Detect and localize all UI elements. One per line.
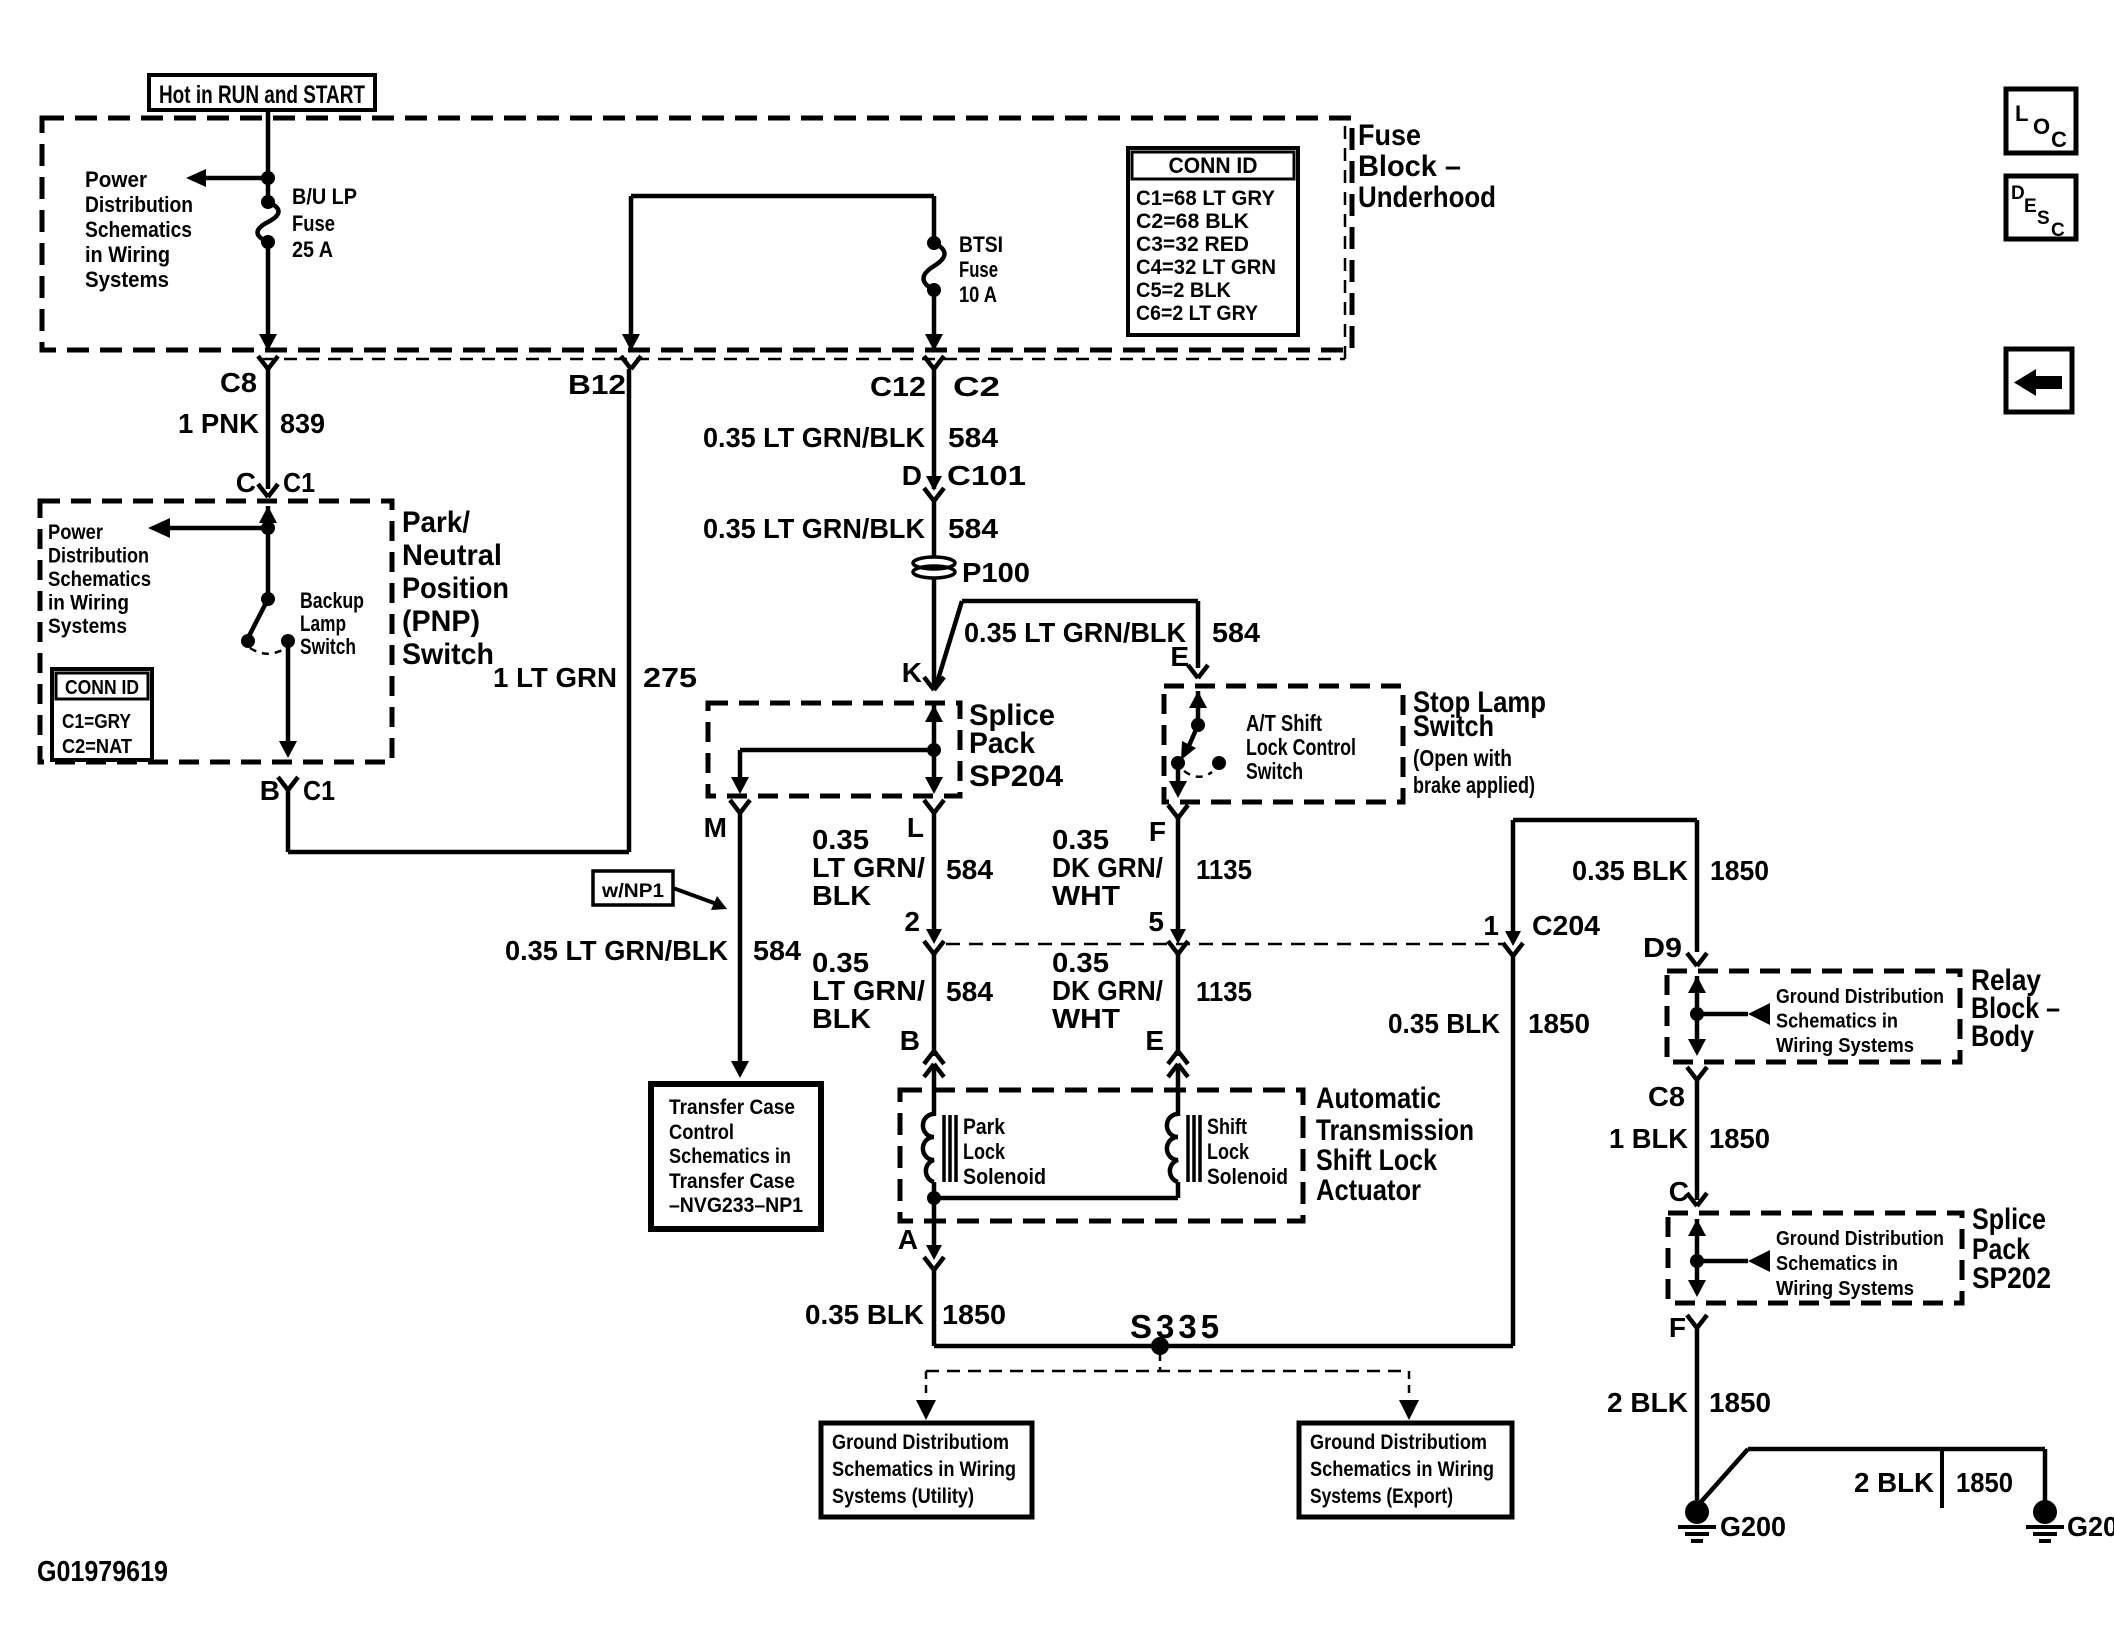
svg-text:C: C bbox=[2051, 127, 2067, 152]
svg-text:0.35 BLK: 0.35 BLK bbox=[1388, 1008, 1500, 1039]
svg-text:1850: 1850 bbox=[1709, 1123, 1770, 1154]
svg-text:Underhood: Underhood bbox=[1358, 181, 1496, 214]
svg-text:Ground Distribution: Ground Distribution bbox=[1776, 986, 1944, 1008]
svg-text:C8: C8 bbox=[1648, 1081, 1685, 1112]
svg-text:Splice: Splice bbox=[1972, 1203, 2046, 1236]
svg-text:1 LT GRN: 1 LT GRN bbox=[493, 662, 617, 693]
svg-text:L: L bbox=[907, 812, 924, 843]
svg-text:C1=GRY: C1=GRY bbox=[62, 711, 132, 733]
svg-text:C1: C1 bbox=[303, 775, 335, 806]
svg-text:Systems (Export): Systems (Export) bbox=[1310, 1485, 1453, 1508]
svg-text:Lamp: Lamp bbox=[300, 611, 346, 636]
svg-text:CONN ID: CONN ID bbox=[65, 677, 139, 699]
svg-text:SP204: SP204 bbox=[969, 760, 1063, 793]
svg-text:Fuse: Fuse bbox=[959, 257, 998, 282]
svg-text:D: D bbox=[2011, 183, 2025, 204]
svg-text:LT GRN/: LT GRN/ bbox=[812, 852, 925, 883]
svg-text:G01979619: G01979619 bbox=[37, 1556, 168, 1588]
svg-text:F: F bbox=[1149, 816, 1166, 847]
svg-text:Fuse: Fuse bbox=[1358, 119, 1421, 152]
svg-text:C1=68 LT GRY: C1=68 LT GRY bbox=[1136, 187, 1275, 210]
svg-text:Switch: Switch bbox=[1246, 758, 1303, 784]
svg-text:1850: 1850 bbox=[1709, 1387, 1771, 1418]
svg-text:Switch: Switch bbox=[300, 634, 356, 659]
svg-text:F: F bbox=[1669, 1312, 1686, 1343]
svg-text:CONN ID: CONN ID bbox=[1169, 153, 1258, 178]
svg-text:Automatic: Automatic bbox=[1316, 1082, 1441, 1115]
svg-text:1850: 1850 bbox=[1956, 1467, 2013, 1498]
svg-text:C8: C8 bbox=[220, 367, 257, 398]
svg-text:Power: Power bbox=[48, 521, 103, 544]
svg-text:E: E bbox=[2024, 196, 2037, 217]
svg-text:2 BLK: 2 BLK bbox=[1854, 1467, 1934, 1498]
svg-text:E: E bbox=[1145, 1025, 1164, 1056]
svg-text:Transfer Case: Transfer Case bbox=[669, 1170, 795, 1193]
svg-text:S: S bbox=[2037, 208, 2050, 229]
svg-text:Ground Distributiom: Ground Distributiom bbox=[832, 1431, 1009, 1454]
svg-text:Schematics: Schematics bbox=[48, 568, 151, 591]
svg-text:C3=32 RED: C3=32 RED bbox=[1136, 233, 1249, 256]
svg-text:Shift: Shift bbox=[1207, 1114, 1248, 1139]
svg-text:0.35: 0.35 bbox=[1052, 824, 1109, 855]
svg-text:1135: 1135 bbox=[1196, 854, 1252, 885]
svg-text:B: B bbox=[900, 1025, 920, 1056]
svg-text:in Wiring: in Wiring bbox=[48, 592, 129, 615]
svg-text:BLK: BLK bbox=[812, 880, 871, 911]
svg-text:C4=32 LT GRN: C4=32 LT GRN bbox=[1136, 256, 1276, 279]
svg-text:839: 839 bbox=[280, 408, 325, 439]
svg-text:BLK: BLK bbox=[812, 1003, 871, 1034]
svg-text:1135: 1135 bbox=[1196, 976, 1252, 1007]
svg-text:Actuator: Actuator bbox=[1316, 1174, 1421, 1207]
svg-text:Wiring Systems: Wiring Systems bbox=[1776, 1035, 1914, 1057]
svg-text:C2: C2 bbox=[953, 371, 1000, 402]
svg-text:0.35 LT GRN/BLK: 0.35 LT GRN/BLK bbox=[703, 422, 925, 453]
svg-text:C12: C12 bbox=[870, 371, 926, 402]
svg-text:584: 584 bbox=[1212, 617, 1260, 648]
svg-text:0.35 LT GRN/BLK: 0.35 LT GRN/BLK bbox=[703, 513, 925, 544]
svg-text:Solenoid: Solenoid bbox=[963, 1164, 1046, 1189]
svg-text:Schematics in: Schematics in bbox=[1776, 1253, 1898, 1275]
svg-text:Neutral: Neutral bbox=[402, 539, 502, 572]
svg-text:Block –: Block – bbox=[1358, 150, 1461, 183]
svg-text:WHT: WHT bbox=[1052, 880, 1120, 911]
svg-text:(PNP): (PNP) bbox=[402, 605, 480, 638]
svg-text:Backup: Backup bbox=[300, 588, 364, 613]
svg-text:C1: C1 bbox=[283, 467, 315, 498]
svg-text:B/U LP: B/U LP bbox=[292, 184, 357, 209]
svg-text:1850: 1850 bbox=[1710, 855, 1769, 886]
svg-text:Park/: Park/ bbox=[402, 506, 471, 539]
svg-text:A: A bbox=[898, 1224, 918, 1255]
svg-text:Park: Park bbox=[963, 1114, 1006, 1139]
svg-text:LT GRN/: LT GRN/ bbox=[812, 975, 925, 1006]
svg-text:Body: Body bbox=[1971, 1020, 2034, 1053]
svg-text:D9: D9 bbox=[1643, 932, 1682, 963]
svg-text:C: C bbox=[2051, 220, 2065, 241]
svg-text:0.35: 0.35 bbox=[812, 824, 869, 855]
svg-text:Schematics in Wiring: Schematics in Wiring bbox=[1310, 1458, 1494, 1481]
svg-text:Position: Position bbox=[402, 572, 509, 605]
svg-text:O: O bbox=[2033, 114, 2050, 139]
svg-text:Schematics in Wiring: Schematics in Wiring bbox=[832, 1458, 1016, 1481]
svg-text:E: E bbox=[1170, 641, 1189, 672]
svg-text:0.35 LT GRN/BLK: 0.35 LT GRN/BLK bbox=[964, 617, 1186, 648]
svg-text:1: 1 bbox=[1483, 910, 1499, 941]
svg-text:Switch: Switch bbox=[402, 638, 494, 671]
svg-text:Systems (Utility): Systems (Utility) bbox=[832, 1485, 974, 1508]
svg-text:G201: G201 bbox=[2067, 1511, 2114, 1542]
svg-text:1 PNK: 1 PNK bbox=[178, 408, 259, 439]
svg-text:C: C bbox=[236, 467, 256, 498]
svg-text:C101: C101 bbox=[947, 460, 1026, 491]
svg-text:DK GRN/: DK GRN/ bbox=[1052, 975, 1163, 1006]
svg-text:B: B bbox=[260, 775, 280, 806]
svg-text:0.35: 0.35 bbox=[812, 947, 869, 978]
svg-text:BTSI: BTSI bbox=[959, 232, 1003, 257]
svg-text:SP202: SP202 bbox=[1972, 1262, 2051, 1295]
svg-text:Lock: Lock bbox=[963, 1139, 1006, 1164]
svg-text:1850: 1850 bbox=[1528, 1008, 1590, 1039]
svg-text:WHT: WHT bbox=[1052, 1003, 1120, 1034]
svg-text:Ground Distributiom: Ground Distributiom bbox=[1310, 1431, 1487, 1454]
svg-text:C: C bbox=[1669, 1176, 1689, 1207]
svg-text:10 A: 10 A bbox=[959, 282, 997, 307]
svg-text:0.35 BLK: 0.35 BLK bbox=[805, 1299, 924, 1330]
svg-text:C6=2 LT GRY: C6=2 LT GRY bbox=[1136, 302, 1258, 325]
svg-text:Ground Distribution: Ground Distribution bbox=[1776, 1228, 1944, 1250]
svg-text:Wiring Systems: Wiring Systems bbox=[1776, 1278, 1914, 1300]
svg-text:Fuse: Fuse bbox=[292, 211, 335, 236]
svg-text:C2=NAT: C2=NAT bbox=[62, 736, 132, 758]
svg-text:C2=68 BLK: C2=68 BLK bbox=[1136, 210, 1249, 233]
svg-text:275: 275 bbox=[643, 662, 697, 693]
svg-text:0.35: 0.35 bbox=[1052, 947, 1109, 978]
svg-text:Distribution: Distribution bbox=[85, 192, 193, 217]
svg-text:584: 584 bbox=[948, 422, 998, 453]
svg-text:Schematics in: Schematics in bbox=[669, 1145, 791, 1168]
svg-text:1850: 1850 bbox=[942, 1299, 1006, 1330]
svg-text:2 BLK: 2 BLK bbox=[1607, 1387, 1688, 1418]
svg-text:–NVG233–NP1: –NVG233–NP1 bbox=[669, 1194, 803, 1217]
svg-text:2: 2 bbox=[904, 906, 920, 937]
svg-text:in Wiring: in Wiring bbox=[85, 242, 170, 267]
svg-text:Schematics in: Schematics in bbox=[1776, 1011, 1898, 1033]
svg-text:584: 584 bbox=[948, 513, 998, 544]
svg-text:K: K bbox=[902, 657, 922, 688]
svg-text:brake applied): brake applied) bbox=[1413, 772, 1535, 798]
svg-text:M: M bbox=[704, 812, 727, 843]
svg-text:w/NP1: w/NP1 bbox=[601, 881, 665, 902]
svg-text:Lock: Lock bbox=[1207, 1139, 1250, 1164]
svg-text:584: 584 bbox=[753, 935, 801, 966]
svg-text:D: D bbox=[902, 460, 922, 491]
svg-text:G200: G200 bbox=[1720, 1511, 1786, 1542]
svg-text:Transmission: Transmission bbox=[1316, 1114, 1474, 1147]
svg-text:5: 5 bbox=[1148, 906, 1164, 937]
svg-text:C204: C204 bbox=[1532, 910, 1600, 941]
svg-text:A/T Shift: A/T Shift bbox=[1246, 710, 1322, 736]
svg-text:Systems: Systems bbox=[85, 267, 169, 292]
svg-text:1 BLK: 1 BLK bbox=[1609, 1123, 1688, 1154]
svg-text:Pack: Pack bbox=[969, 727, 1035, 760]
svg-text:Systems: Systems bbox=[48, 615, 127, 638]
svg-text:Power: Power bbox=[85, 167, 147, 192]
svg-text:0.35 LT GRN/BLK: 0.35 LT GRN/BLK bbox=[505, 935, 728, 966]
svg-text:Distribution: Distribution bbox=[48, 545, 149, 568]
svg-text:Schematics: Schematics bbox=[85, 217, 192, 242]
svg-text:B12: B12 bbox=[568, 369, 626, 400]
svg-text:0.35 BLK: 0.35 BLK bbox=[1572, 855, 1688, 886]
svg-text:L: L bbox=[2015, 101, 2028, 126]
svg-text:Switch: Switch bbox=[1413, 710, 1494, 743]
svg-text:(Open with: (Open with bbox=[1413, 745, 1512, 771]
svg-text:Control: Control bbox=[669, 1121, 734, 1144]
svg-text:Transfer Case: Transfer Case bbox=[669, 1096, 795, 1119]
svg-text:Lock Control: Lock Control bbox=[1246, 734, 1356, 760]
svg-text:P100: P100 bbox=[962, 557, 1030, 588]
svg-text:Hot in RUN and START: Hot in RUN and START bbox=[159, 81, 365, 109]
svg-text:Shift Lock: Shift Lock bbox=[1316, 1144, 1437, 1177]
svg-text:25 A: 25 A bbox=[292, 237, 333, 262]
svg-text:C5=2 BLK: C5=2 BLK bbox=[1136, 279, 1231, 302]
svg-text:584: 584 bbox=[946, 854, 993, 885]
svg-text:DK GRN/: DK GRN/ bbox=[1052, 852, 1163, 883]
svg-text:S335: S335 bbox=[1130, 1308, 1223, 1345]
svg-text:584: 584 bbox=[946, 976, 993, 1007]
svg-text:Solenoid: Solenoid bbox=[1207, 1164, 1288, 1189]
